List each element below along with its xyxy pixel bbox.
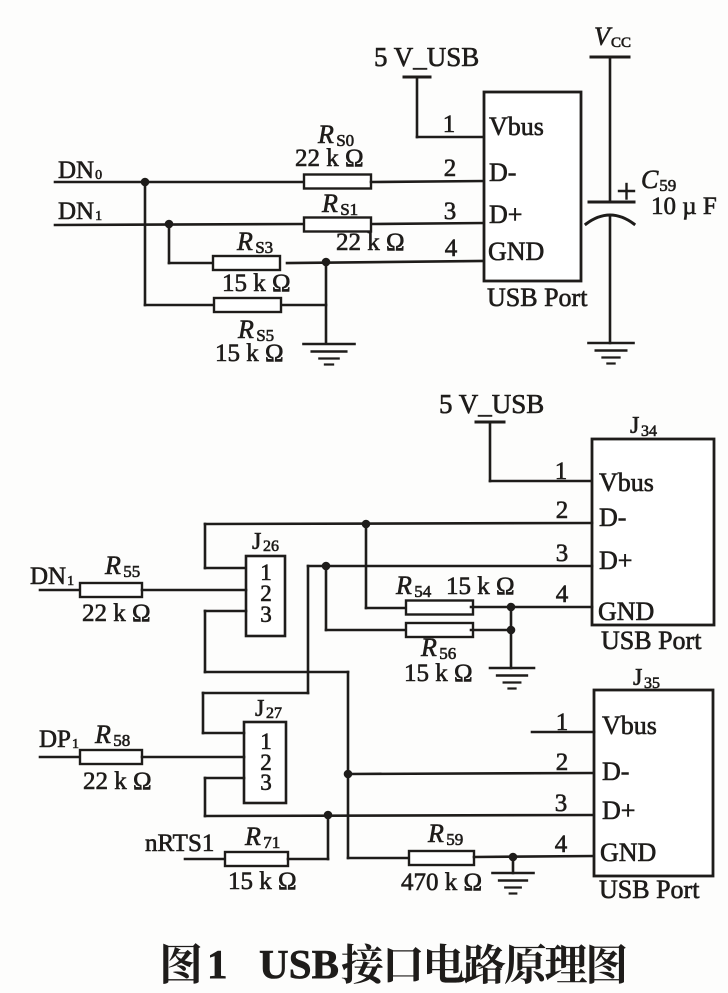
svg-text:3: 3: [260, 770, 272, 795]
svg-text:S3: S3: [255, 238, 273, 257]
svg-text:4: 4: [555, 831, 568, 858]
svg-text:10 µ F: 10 µ F: [651, 193, 717, 220]
svg-text:DN: DN: [30, 563, 66, 590]
svg-text:1: 1: [72, 737, 79, 752]
svg-text:R: R: [236, 227, 253, 256]
svg-text:GND: GND: [598, 597, 654, 626]
svg-text:1: 1: [443, 111, 456, 138]
svg-text:R: R: [420, 633, 437, 662]
svg-text:J: J: [255, 696, 264, 722]
svg-text:USB Port: USB Port: [487, 283, 588, 312]
svg-text:DN: DN: [58, 198, 94, 225]
svg-text:R: R: [94, 720, 111, 749]
svg-text:2: 2: [556, 749, 569, 776]
svg-text:1: 1: [556, 709, 569, 736]
svg-text:Vbus: Vbus: [602, 711, 657, 740]
svg-text:D+: D+: [599, 546, 632, 575]
svg-text:D+: D+: [602, 796, 635, 825]
svg-text:D-: D-: [602, 757, 629, 786]
svg-text:J: J: [252, 529, 261, 555]
svg-text:15 k Ω: 15 k Ω: [446, 573, 515, 600]
svg-text:55: 55: [123, 562, 140, 581]
svg-text:GND: GND: [600, 838, 656, 867]
svg-text:22 k Ω: 22 k Ω: [336, 229, 405, 256]
svg-text:5 V_USB: 5 V_USB: [439, 389, 544, 419]
svg-text:3: 3: [555, 790, 568, 817]
svg-text:S1: S1: [340, 200, 358, 219]
svg-text:58: 58: [113, 731, 130, 750]
svg-text:USB Port: USB Port: [601, 626, 702, 655]
svg-text:2: 2: [556, 497, 569, 524]
svg-text:59: 59: [446, 830, 463, 849]
svg-text:22 k Ω: 22 k Ω: [295, 145, 364, 172]
svg-text:1: 1: [207, 941, 228, 987]
svg-text:22 k Ω: 22 k Ω: [82, 600, 151, 627]
svg-text:D-: D-: [599, 503, 626, 532]
svg-text:3: 3: [260, 602, 272, 627]
svg-text:15 k Ω: 15 k Ω: [404, 660, 473, 687]
svg-text:54: 54: [414, 582, 432, 601]
svg-text:D-: D-: [489, 158, 516, 187]
svg-text:R: R: [244, 822, 261, 851]
svg-text:1: 1: [95, 209, 102, 224]
svg-text:15 k Ω: 15 k Ω: [228, 868, 297, 895]
svg-text:15 k Ω: 15 k Ω: [222, 270, 291, 297]
svg-text:D+: D+: [489, 200, 522, 229]
svg-text:15 k Ω: 15 k Ω: [215, 340, 284, 367]
svg-text:R: R: [321, 189, 338, 218]
svg-text:DP: DP: [39, 726, 71, 753]
svg-text:R: R: [427, 819, 444, 848]
svg-text:CC: CC: [611, 35, 631, 51]
svg-text:J: J: [630, 413, 639, 439]
svg-text:2: 2: [444, 155, 457, 182]
svg-text:Vbus: Vbus: [599, 468, 654, 497]
svg-text:4: 4: [556, 581, 569, 608]
svg-text:26: 26: [263, 538, 279, 555]
svg-text:DN: DN: [58, 157, 94, 184]
svg-text:1: 1: [67, 574, 74, 589]
svg-text:USB Port: USB Port: [599, 875, 700, 904]
svg-text:5 V_USB: 5 V_USB: [374, 42, 479, 72]
svg-text:C: C: [641, 165, 659, 194]
svg-text:470 k Ω: 470 k Ω: [401, 869, 482, 896]
svg-text:R: R: [395, 571, 412, 600]
svg-text:22 k Ω: 22 k Ω: [83, 768, 152, 795]
svg-text:3: 3: [444, 198, 457, 225]
svg-text:nRTS1: nRTS1: [145, 830, 214, 857]
svg-text:USB: USB: [259, 941, 339, 987]
svg-text:27: 27: [266, 705, 282, 722]
svg-text:3: 3: [556, 540, 569, 567]
svg-text:4: 4: [445, 235, 458, 262]
svg-text:1: 1: [555, 458, 568, 485]
svg-text:GND: GND: [488, 237, 544, 266]
svg-text:Vbus: Vbus: [489, 112, 544, 141]
svg-text:34: 34: [641, 423, 657, 440]
svg-text:J: J: [633, 665, 642, 691]
svg-text:71: 71: [263, 833, 280, 852]
svg-text:35: 35: [644, 675, 660, 692]
svg-text:R: R: [104, 551, 121, 580]
